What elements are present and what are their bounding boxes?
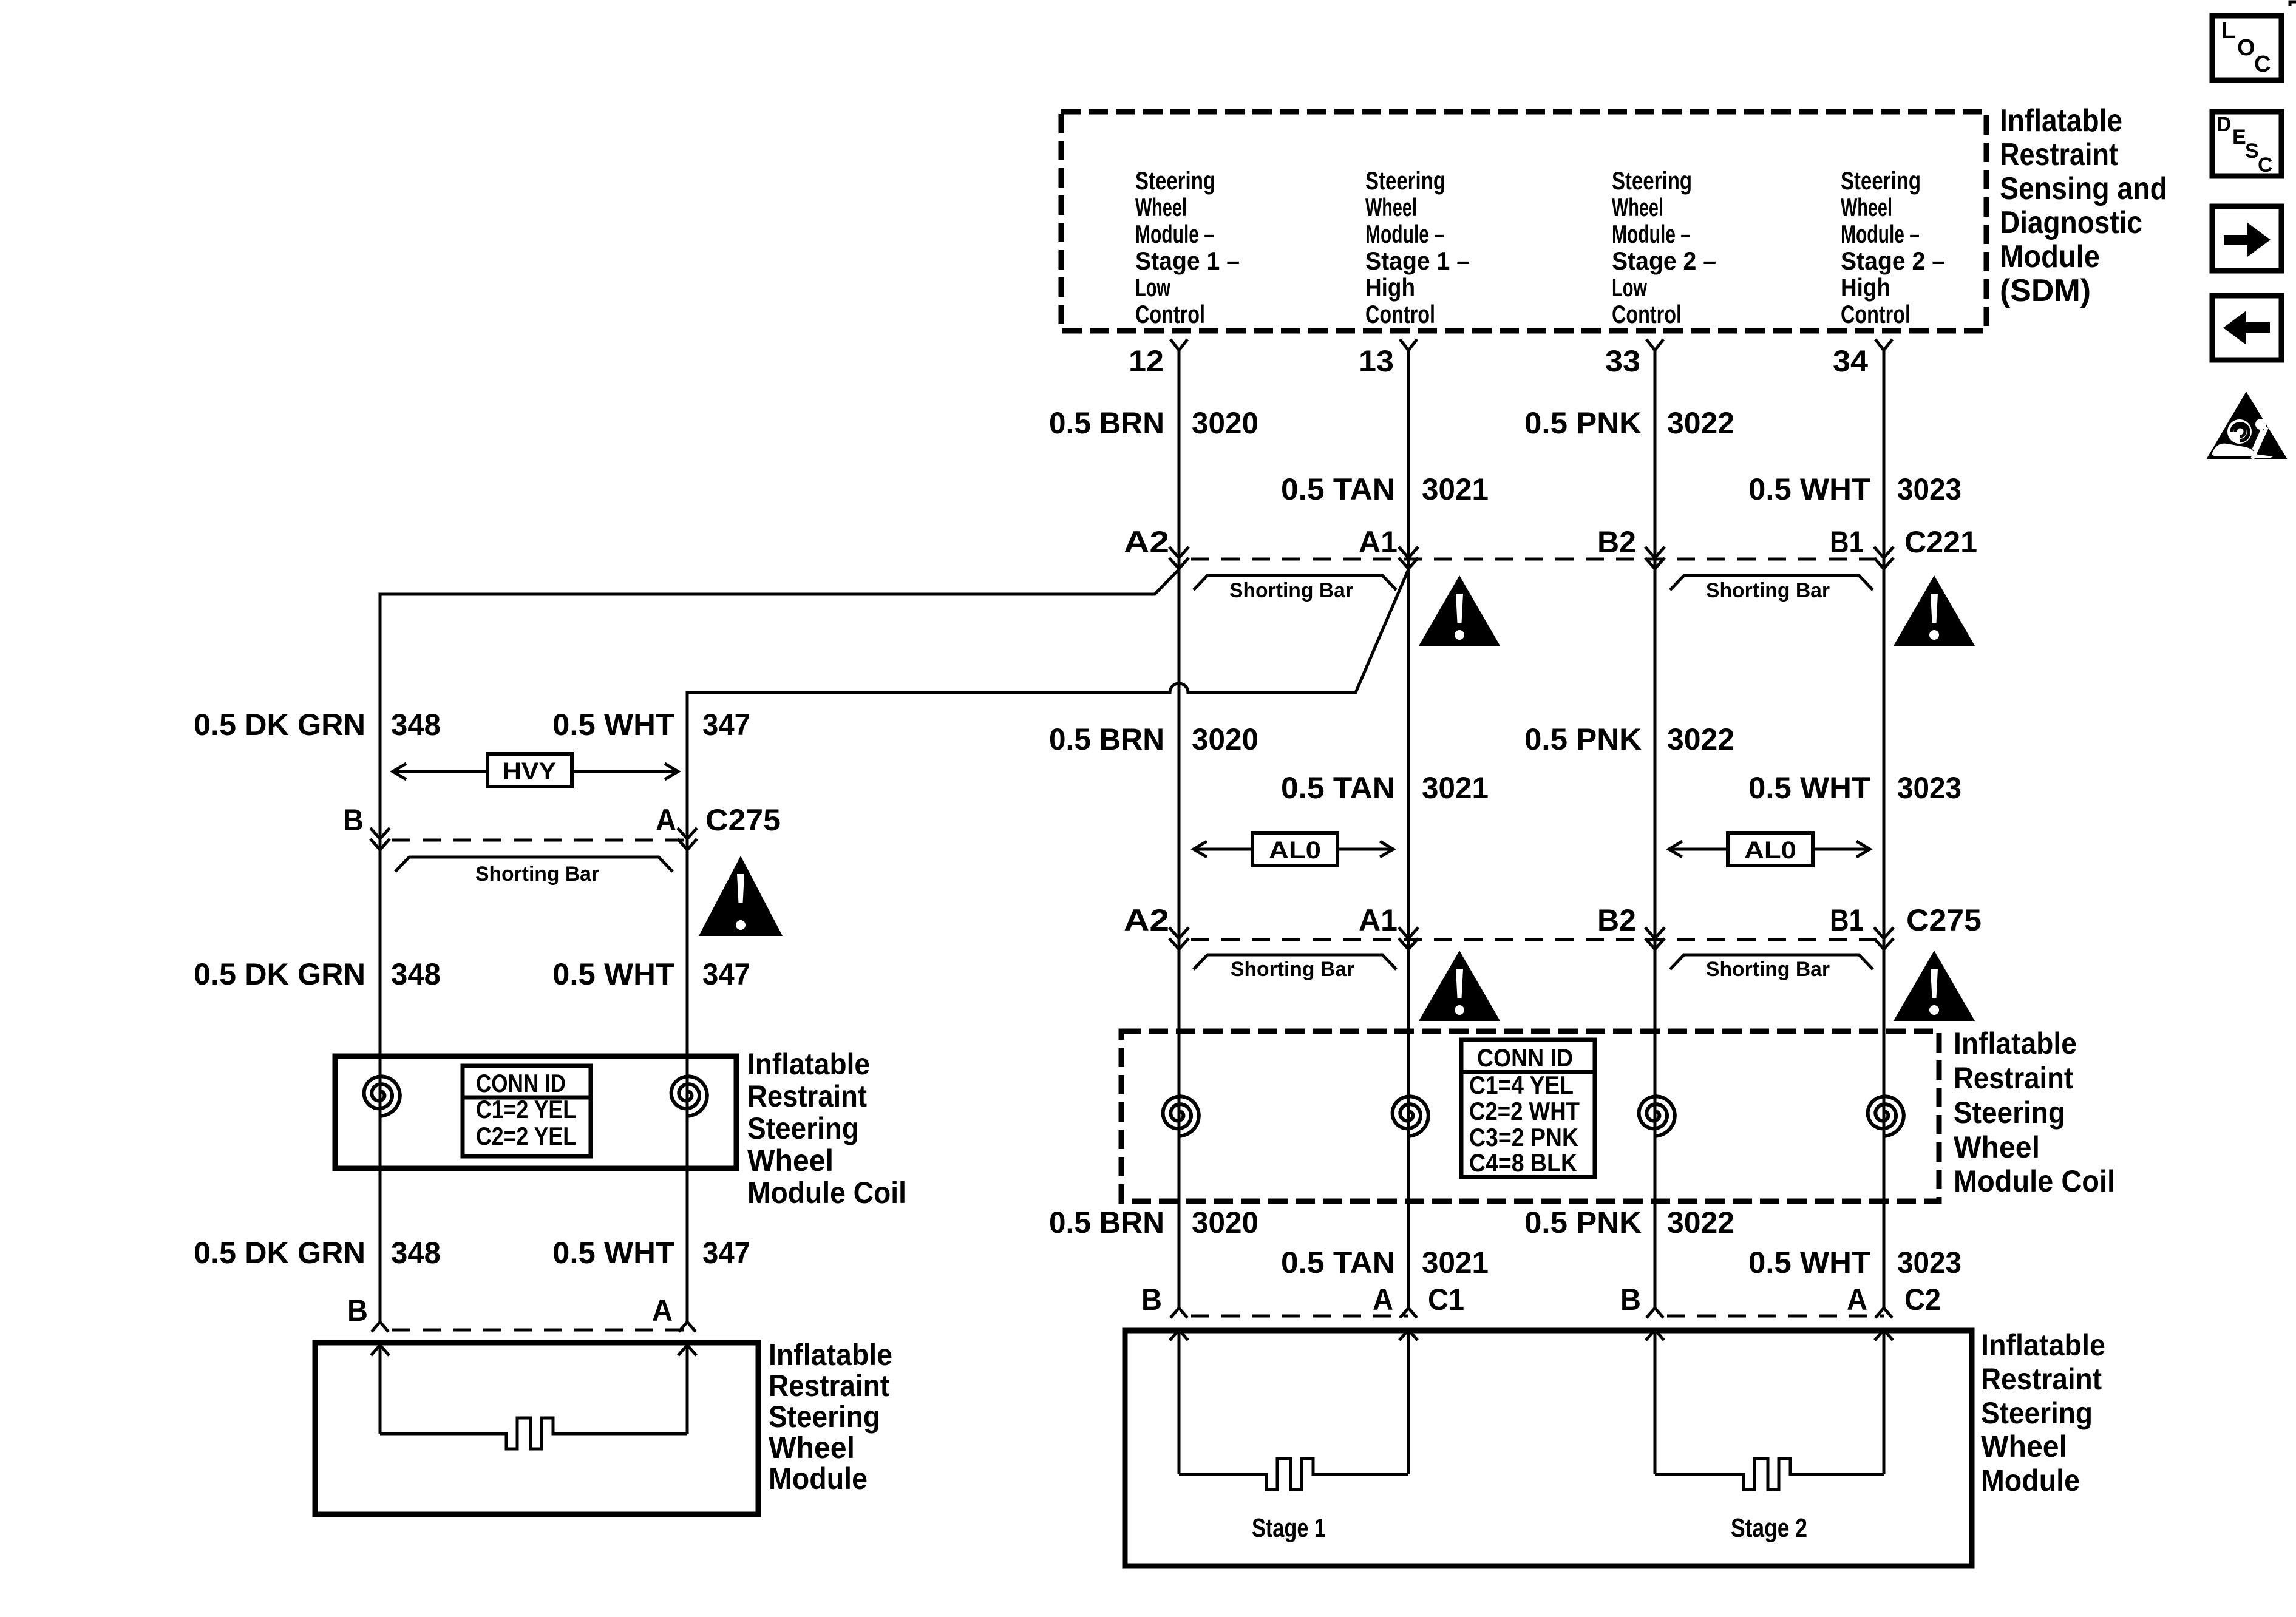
svg-text:348: 348	[391, 708, 441, 742]
svg-text:Shorting Bar: Shorting Bar	[475, 863, 599, 886]
svg-text:Restraint: Restraint	[1954, 1061, 2073, 1095]
svg-text:0.5 WHT: 0.5 WHT	[552, 957, 674, 991]
svg-text:0.5 DK GRN: 0.5 DK GRN	[194, 708, 365, 742]
LOC navigation box	[2212, 16, 2281, 80]
svg-text:Shorting Bar: Shorting Bar	[1706, 958, 1830, 981]
svg-text:Stage 2 –: Stage 2 –	[1841, 246, 1945, 275]
svg-text:Module: Module	[769, 1462, 868, 1496]
svg-text:C2=2 WHT: C2=2 WHT	[1469, 1097, 1580, 1125]
svg-text:A2: A2	[1124, 903, 1169, 937]
shorting bar bracket C221 A2-A1	[1194, 575, 1396, 590]
svg-text:Stage 1 –: Stage 1 –	[1365, 246, 1470, 275]
C1 terminal chevron A	[1400, 1308, 1417, 1318]
svg-text:Steering: Steering	[1841, 166, 1921, 195]
inflatable restraint steering wheel module box (left)	[315, 1343, 758, 1514]
SIR caution triangle at C221 left	[1419, 575, 1500, 646]
svg-text:C4=8 BLK: C4=8 BLK	[1469, 1148, 1577, 1177]
connector C2 dashed line	[1655, 1315, 1884, 1318]
SDM label: Inflatable Restraint Sensing and Diagnostic Module (SDM)	[2000, 103, 2167, 308]
steering wheel module coil box (left)	[335, 1056, 736, 1168]
svg-text:Wheel: Wheel	[1981, 1429, 2067, 1463]
coil spiral on wire 3021	[1393, 1096, 1428, 1136]
svg-text:347: 347	[702, 708, 750, 742]
svg-text:3021: 3021	[1422, 1246, 1489, 1280]
svg-text:Inflatable: Inflatable	[769, 1338, 892, 1372]
AL0 span arrow left	[1194, 848, 1393, 851]
svg-text:3022: 3022	[1667, 1205, 1734, 1239]
inflatable restraint steering wheel module box (right)	[1125, 1331, 1972, 1566]
svg-text:Inflatable: Inflatable	[1981, 1328, 2105, 1362]
svg-text:C3=2 PNK: C3=2 PNK	[1469, 1123, 1578, 1151]
svg-text:Sensing and: Sensing and	[2000, 171, 2167, 206]
SDM pin text: Stage 2 Low Control	[1612, 166, 1716, 328]
svg-text:Wheel: Wheel	[1841, 193, 1892, 222]
svg-text:0.5 PNK: 0.5 PNK	[1524, 406, 1642, 440]
wire 3022 vertical run (SDM pin 33)	[1654, 350, 1657, 1308]
svg-text:348: 348	[391, 957, 441, 991]
svg-text:HVY: HVY	[503, 758, 556, 785]
svg-text:Steering: Steering	[769, 1400, 880, 1434]
svg-text:0.5 WHT: 0.5 WHT	[552, 1236, 674, 1270]
left module connector dashed line	[380, 1329, 687, 1332]
svg-text:CONN ID: CONN ID	[1477, 1043, 1573, 1072]
svg-text:Wheel: Wheel	[1612, 193, 1663, 222]
C1 terminal chevron B	[1170, 1308, 1187, 1318]
svg-text:0.5 WHT: 0.5 WHT	[1748, 1246, 1870, 1280]
svg-text:Control: Control	[1365, 300, 1435, 328]
svg-text:3022: 3022	[1667, 722, 1734, 756]
SDM pin text: Stage 1 Low Control	[1135, 166, 1240, 328]
svg-text:D: D	[2216, 113, 2232, 136]
wire 3023 vertical run (SDM pin 34)	[1883, 350, 1886, 1308]
svg-text:Shorting Bar: Shorting Bar	[1229, 579, 1353, 602]
svg-text:Inflatable: Inflatable	[747, 1047, 870, 1081]
svg-text:0.5 BRN: 0.5 BRN	[1049, 1205, 1164, 1239]
AL0 harness option box right	[1728, 833, 1813, 866]
svg-text:3020: 3020	[1192, 406, 1258, 440]
svg-text:Wheel: Wheel	[769, 1431, 855, 1465]
svg-text:3022: 3022	[1667, 406, 1734, 440]
branch wire from C221 A1 to left harness (348) with hop over wire 3020	[687, 569, 1408, 1322]
C221 terminal chevrons pin B2	[1645, 547, 1665, 558]
svg-text:Diagnostic: Diagnostic	[2000, 205, 2142, 240]
svg-text:0.5 BRN: 0.5 BRN	[1049, 722, 1164, 756]
svg-text:Stage 1: Stage 1	[1252, 1513, 1326, 1543]
svg-text:B: B	[343, 803, 364, 837]
svg-text:Steering: Steering	[1365, 166, 1445, 195]
svg-text:S: S	[2245, 140, 2259, 163]
back arrow box	[2212, 296, 2281, 360]
connector C1 dashed line	[1179, 1315, 1408, 1318]
svg-text:AL0: AL0	[1269, 837, 1321, 864]
svg-text:Control: Control	[1612, 300, 1682, 328]
svg-text:Restraint: Restraint	[747, 1079, 867, 1113]
C275 left terminal chevrons B	[370, 828, 390, 839]
svg-text:Stage 2: Stage 2	[1731, 1513, 1807, 1543]
svg-text:3021: 3021	[1422, 472, 1489, 506]
svg-text:Low: Low	[1135, 273, 1170, 302]
svg-text:0.5 PNK: 0.5 PNK	[1524, 1205, 1642, 1239]
stage 2 entry arrowhead A	[1875, 1330, 1893, 1340]
svg-text:(SDM): (SDM)	[2000, 273, 2091, 308]
svg-text:0.5 WHT: 0.5 WHT	[1748, 472, 1870, 506]
svg-text:Restraint: Restraint	[2000, 137, 2118, 172]
svg-text:Module: Module	[1981, 1463, 2080, 1497]
svg-text:C2: C2	[1904, 1283, 1941, 1317]
svg-text:Control: Control	[1135, 300, 1205, 328]
steering wheel module label right	[1981, 1328, 2105, 1497]
svg-text:12: 12	[1129, 344, 1164, 378]
svg-text:Steering: Steering	[1135, 166, 1215, 195]
DESC navigation box	[2212, 112, 2281, 177]
svg-text:C1=2 YEL: C1=2 YEL	[476, 1095, 576, 1124]
stage 1 entry arrowhead B	[1170, 1330, 1188, 1340]
svg-text:High: High	[1841, 273, 1890, 302]
pin terminal Y at SDM pin 12	[1170, 339, 1187, 350]
svg-text:Restraint: Restraint	[769, 1369, 889, 1403]
connector C221 dashed line	[1179, 558, 1889, 561]
svg-text:A: A	[652, 1293, 673, 1327]
svg-text:Module –: Module –	[1841, 220, 1920, 248]
svg-text:Low: Low	[1612, 273, 1647, 302]
stage 2 entry arrowhead B	[1646, 1330, 1664, 1340]
svg-text:Module –: Module –	[1135, 220, 1214, 248]
SIR caution triangle at C275 left	[1419, 951, 1500, 1021]
svg-text:347: 347	[702, 1236, 750, 1270]
stage 2 squib circuit	[1654, 1330, 1657, 1474]
svg-text:B: B	[1141, 1283, 1162, 1317]
coil spiral on wire 348	[364, 1076, 400, 1116]
stage 1 squib circuit	[1178, 1330, 1181, 1474]
svg-text:Wheel: Wheel	[1365, 193, 1417, 222]
connector C275 dashed line right	[1179, 938, 1889, 941]
SIR caution triangle at C275 right	[1894, 951, 1975, 1021]
left module squib circuit	[379, 1345, 382, 1434]
svg-text:E: E	[2232, 126, 2246, 149]
svg-text:C2=2 YEL: C2=2 YEL	[476, 1122, 576, 1150]
SDM module dashed box	[1061, 112, 1986, 331]
airbag caution triangle icon	[2206, 392, 2288, 459]
svg-text:B1: B1	[1830, 525, 1864, 559]
SIR caution triangle at C275 left section	[699, 856, 783, 936]
svg-text:0.5 TAN: 0.5 TAN	[1281, 472, 1395, 506]
C221 terminal chevrons pin A1	[1399, 547, 1418, 558]
branch wire from C221 A2 to left harness (347)	[380, 569, 1179, 1322]
wire 3020 vertical run (SDM pin 12 to steering wheel module)	[1178, 350, 1181, 1308]
svg-text:L: L	[2221, 18, 2235, 44]
svg-text:C: C	[2258, 154, 2273, 177]
svg-text:C221: C221	[1904, 525, 1977, 559]
svg-text:A: A	[1373, 1283, 1393, 1317]
CONN ID table right	[1461, 1040, 1595, 1177]
svg-text:347: 347	[702, 957, 750, 991]
coil module label right: Inflatable Restraint Steering Wheel Module Coil	[1954, 1026, 2115, 1198]
svg-text:A2: A2	[1124, 525, 1169, 559]
AL0 harness option box left	[1252, 833, 1337, 866]
svg-text:A1: A1	[1359, 525, 1398, 559]
pin terminal Y at SDM pin 34	[1875, 339, 1892, 350]
svg-text:0.5 BRN: 0.5 BRN	[1049, 406, 1164, 440]
svg-text:3020: 3020	[1192, 1205, 1258, 1239]
svg-text:Inflatable: Inflatable	[1954, 1026, 2077, 1060]
svg-text:0.5 WHT: 0.5 WHT	[552, 708, 674, 742]
svg-text:0.5 DK GRN: 0.5 DK GRN	[194, 1236, 365, 1270]
svg-text:Module Coil: Module Coil	[1954, 1164, 2115, 1198]
svg-text:3021: 3021	[1422, 771, 1489, 805]
HVY span arrow	[393, 770, 678, 773]
svg-text:B: B	[1620, 1283, 1641, 1317]
svg-text:C1=4 YEL: C1=4 YEL	[1469, 1071, 1574, 1099]
pin terminal Y at SDM pin 33	[1646, 339, 1663, 350]
svg-text:Steering: Steering	[1954, 1096, 2065, 1130]
svg-text:Steering: Steering	[1981, 1396, 2093, 1430]
connector C275 dashed line left	[380, 839, 692, 842]
svg-text:Shorting Bar: Shorting Bar	[1231, 958, 1354, 981]
left module entry arrowhead A	[678, 1345, 696, 1355]
svg-text:0.5 DK GRN: 0.5 DK GRN	[194, 957, 365, 991]
svg-text:Steering: Steering	[1612, 166, 1692, 195]
HVY harness option box	[487, 754, 572, 787]
svg-text:C: C	[2254, 52, 2271, 77]
svg-text:CONN ID: CONN ID	[476, 1069, 566, 1097]
svg-text:B2: B2	[1597, 525, 1636, 559]
forward arrow box	[2212, 206, 2281, 271]
svg-text:Module Coil: Module Coil	[747, 1176, 906, 1210]
svg-text:Wheel: Wheel	[747, 1144, 834, 1178]
svg-text:0.5 TAN: 0.5 TAN	[1281, 1246, 1395, 1280]
coil spiral on wire 3020	[1163, 1096, 1199, 1136]
coil spiral on wire 3022	[1639, 1096, 1675, 1136]
shorting bar bracket C275 left	[395, 857, 673, 872]
svg-text:0.5 PNK: 0.5 PNK	[1524, 722, 1642, 756]
svg-text:Control: Control	[1841, 300, 1911, 328]
svg-text:AL0: AL0	[1744, 837, 1796, 864]
SIR caution triangle at C221 right	[1894, 575, 1975, 646]
svg-text:A: A	[1847, 1283, 1867, 1317]
svg-text:A: A	[656, 803, 676, 837]
page corner mark	[2290, 2, 2296, 6]
C275 terminal chevrons pin A2	[1169, 927, 1189, 938]
svg-text:34: 34	[1833, 344, 1868, 378]
left module terminal chevron A	[679, 1322, 696, 1332]
svg-text:Shorting Bar: Shorting Bar	[1706, 579, 1830, 602]
coil spiral on wire 3023	[1868, 1096, 1904, 1136]
SDM pin text: Stage 1 High Control	[1365, 166, 1470, 328]
C221 terminal chevrons pin A2	[1169, 547, 1189, 558]
CONN ID table left	[463, 1066, 591, 1156]
svg-text:Wheel: Wheel	[1954, 1130, 2040, 1164]
svg-text:C275: C275	[1906, 903, 1982, 937]
svg-text:348: 348	[391, 1236, 441, 1270]
svg-text:Module –: Module –	[1612, 220, 1691, 248]
C275 terminal chevrons pin B1	[1874, 927, 1894, 938]
svg-text:Restraint: Restraint	[1981, 1362, 2102, 1396]
svg-text:Module –: Module –	[1365, 220, 1444, 248]
stage 1 entry arrowhead A	[1399, 1330, 1418, 1340]
C275 left terminal chevrons A	[678, 828, 697, 839]
C2 terminal chevron A	[1875, 1308, 1892, 1318]
svg-text:Module: Module	[2000, 239, 2100, 274]
svg-text:Wheel: Wheel	[1135, 193, 1187, 222]
steering wheel module coil dashed box	[1121, 1031, 1939, 1201]
SDM pin text: Stage 2 High Control	[1841, 166, 1945, 328]
svg-text:0.5 TAN: 0.5 TAN	[1281, 771, 1395, 805]
coil spiral on wire 347	[671, 1076, 707, 1116]
svg-text:C1: C1	[1428, 1283, 1464, 1317]
coil module label left: Inflatable Restraint Steering Wheel Module Coil	[747, 1047, 906, 1210]
svg-text:33: 33	[1605, 344, 1640, 378]
svg-text:Stage 1 –: Stage 1 –	[1135, 246, 1240, 275]
svg-text:B2: B2	[1597, 903, 1636, 937]
left module terminal chevron B	[372, 1322, 389, 1332]
steering wheel module label left	[769, 1338, 892, 1496]
svg-text:Steering: Steering	[747, 1111, 859, 1145]
svg-text:High: High	[1365, 273, 1415, 302]
C2 terminal chevron B	[1646, 1308, 1663, 1318]
svg-text:3020: 3020	[1192, 722, 1258, 756]
C221 terminal chevrons pin B1	[1874, 547, 1894, 558]
shorting bar bracket C221 B2-B1	[1670, 575, 1873, 590]
svg-text:0.5 WHT: 0.5 WHT	[1748, 771, 1870, 805]
C275 terminal chevrons pin B2	[1645, 927, 1665, 938]
svg-text:3023: 3023	[1897, 771, 1961, 805]
svg-text:Inflatable: Inflatable	[2000, 103, 2122, 138]
C275 terminal chevrons pin A1	[1399, 927, 1418, 938]
svg-text:Stage 2 –: Stage 2 –	[1612, 246, 1716, 275]
AL0 span arrow right	[1669, 848, 1870, 851]
pin terminal Y at SDM pin 13	[1400, 339, 1417, 350]
svg-text:B: B	[347, 1293, 368, 1327]
svg-text:B1: B1	[1830, 903, 1864, 937]
svg-text:3023: 3023	[1897, 472, 1961, 506]
left module entry arrowhead B	[371, 1345, 389, 1355]
svg-text:O: O	[2237, 35, 2255, 61]
svg-text:13: 13	[1359, 344, 1394, 378]
shorting bar bracket C275 B2-B1	[1670, 955, 1873, 969]
svg-text:A1: A1	[1359, 903, 1398, 937]
svg-text:C275: C275	[705, 803, 781, 837]
shorting bar bracket C275 A2-A1	[1194, 955, 1396, 969]
wire 3021 vertical run (SDM pin 13)	[1407, 350, 1410, 1308]
svg-text:3023: 3023	[1897, 1246, 1961, 1280]
